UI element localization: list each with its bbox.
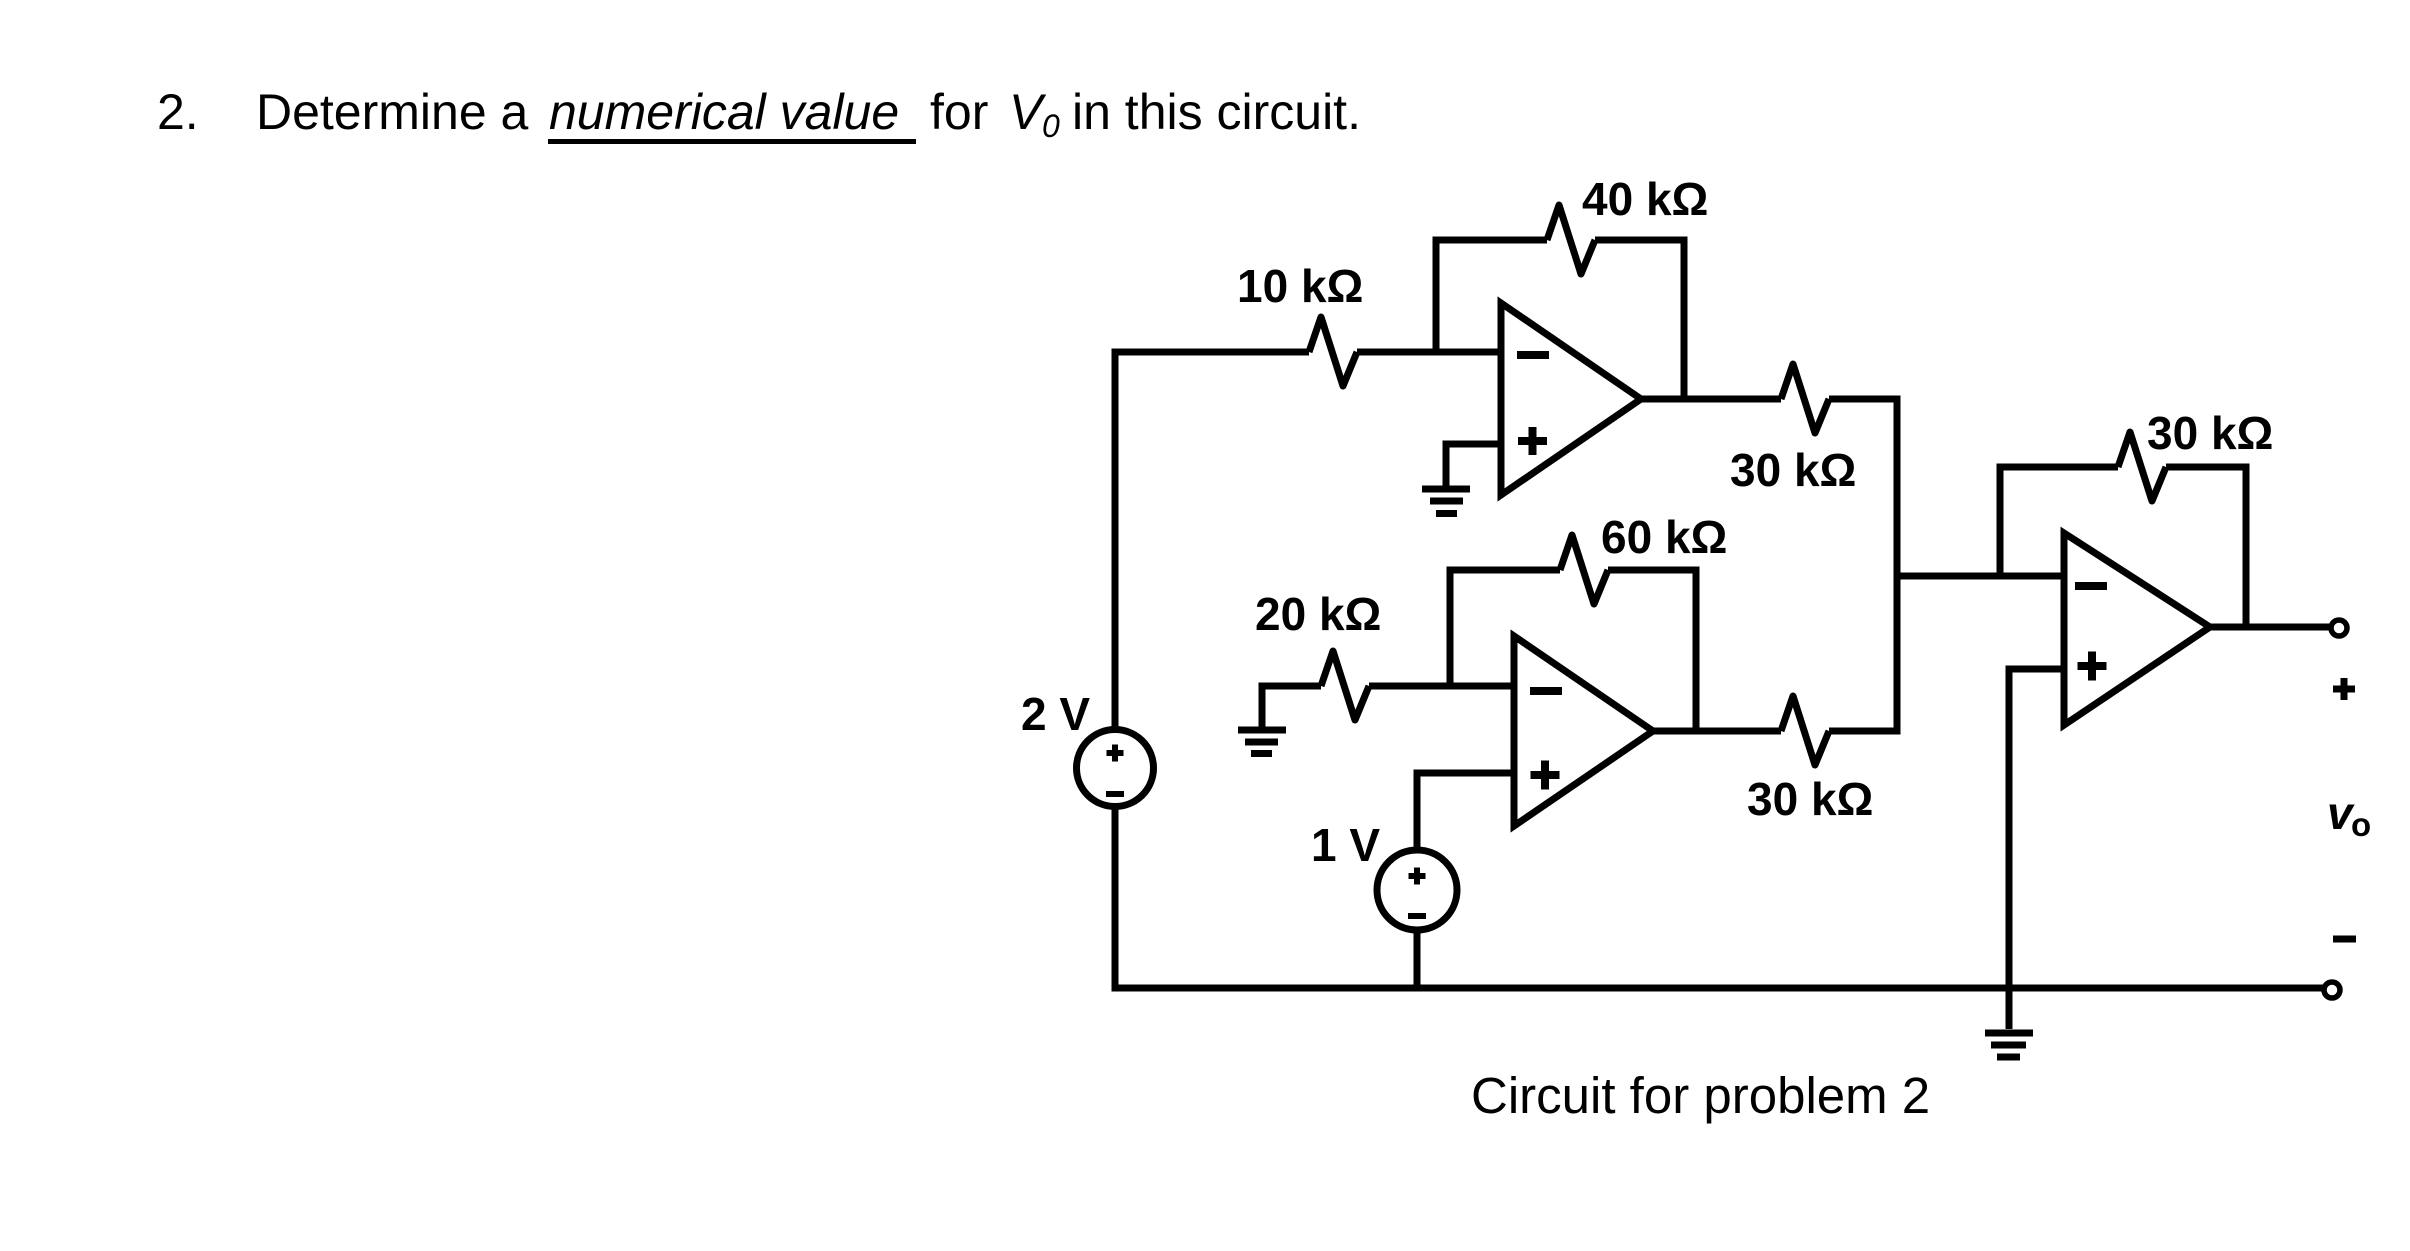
svg-text:numerical value: numerical value [549,84,899,140]
svg-text:for: for [930,84,988,140]
svg-text:20 kΩ: 20 kΩ [1255,588,1381,640]
svg-text:Determine a: Determine a [256,84,529,140]
svg-text:2 V: 2 V [1021,688,1090,740]
svg-text:1 V: 1 V [1311,819,1380,871]
svg-text:2.: 2. [157,84,199,140]
svg-text:in this circuit.: in this circuit. [1072,84,1361,140]
svg-text:10 kΩ: 10 kΩ [1237,260,1363,312]
svg-text:Circuit for problem 2: Circuit for problem 2 [1471,1067,1930,1124]
svg-text:30 kΩ: 30 kΩ [2147,407,2273,459]
svg-text:o: o [2351,806,2371,843]
svg-text:30 kΩ: 30 kΩ [1730,444,1856,496]
svg-text:30 kΩ: 30 kΩ [1747,773,1873,825]
svg-text:0: 0 [1042,108,1060,144]
svg-text:60 kΩ: 60 kΩ [1601,511,1727,563]
svg-text:40 kΩ: 40 kΩ [1582,173,1708,225]
